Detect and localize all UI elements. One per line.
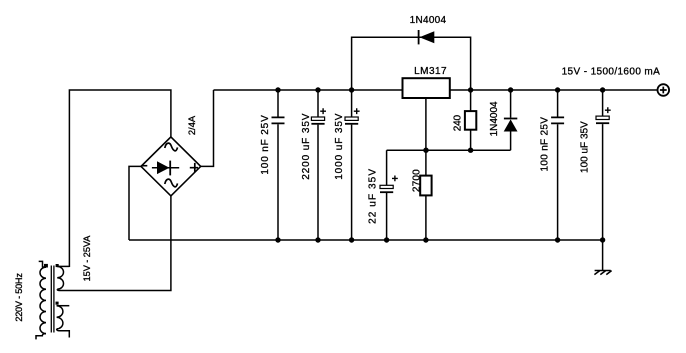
svg-text:1N4004: 1N4004	[410, 15, 447, 26]
wire: bridge + output up to main positive rail	[201, 90, 214, 166]
bridge rectifier B1 body	[141, 137, 201, 196]
node: ground rail / 2700	[423, 237, 428, 242]
wire: vertical 1N4004 branch	[510, 90, 512, 118]
capacitor 1000uF 35V	[345, 108, 360, 124]
node: rail / 2200uF	[315, 87, 320, 92]
capacitor 100uF 35V	[596, 107, 611, 123]
svg-text:15V - 25VA: 15V - 25VA	[82, 235, 92, 282]
node: adjust / 2700	[423, 148, 428, 153]
capacitor 2200uF 35V	[311, 108, 326, 124]
svg-text:LM317: LM317	[414, 66, 447, 77]
bridge rectifier internal diode	[152, 161, 179, 176]
node: rail / 100uF output	[600, 87, 605, 92]
node: adjust / 240	[468, 148, 473, 153]
svg-text:220V - 50Hz: 220V - 50Hz	[14, 273, 24, 322]
node: ground rail / 2200uF	[315, 237, 320, 242]
transformer T1 secondary winding 15V (top, used)	[57, 266, 69, 290]
wire AC: transformer secondary top to bridge top vertex	[69, 90, 170, 267]
svg-text:100 uF 35V: 100 uF 35V	[580, 121, 591, 173]
wire: 100nF output capacitor branch	[557, 90, 559, 240]
node: rail / 100nF input	[275, 87, 280, 92]
transformer T1 primary winding 220V	[36, 261, 46, 339]
wire main positive rail	[214, 89, 658, 91]
wire: 2200uF capacitor branch	[317, 90, 319, 240]
node: ground rail / 1000uF	[349, 237, 354, 242]
wire: 22uF capacitor branch	[386, 150, 388, 240]
svg-text:240: 240	[453, 115, 464, 132]
node: rail / 1000uF / protection diode	[349, 87, 354, 92]
capacitor 100nF 25V (input)	[272, 117, 285, 123]
wire: 100nF input capacitor branch	[277, 90, 279, 240]
wire bottom ground rail	[129, 239, 603, 241]
svg-text:1N4004: 1N4004	[489, 101, 500, 136]
capacitor 22uF 35V	[380, 176, 398, 193]
node: ground rail / 100uF / earth	[600, 237, 605, 242]
wire: protection diode branch (Vin side riser)	[352, 37, 471, 90]
svg-text:22 uF 35V: 22 uF 35V	[367, 168, 378, 224]
resistor 240	[465, 111, 476, 130]
wire: bridge - output down to ground rail	[129, 166, 141, 240]
transformer T1 secondary bottom phase dot	[56, 302, 59, 305]
transformer T1 core	[51, 266, 54, 333]
node: ground rail / 22uF	[384, 237, 389, 242]
transformer T1 secondary top phase dot	[56, 264, 59, 267]
node: rail / vertical 1N4004	[508, 87, 513, 92]
transformer T1 primary phase dot	[44, 264, 48, 268]
regulator LM317	[403, 78, 450, 98]
wire: 240 resistor branch	[470, 90, 472, 150]
wire: 1000uF capacitor branch	[351, 90, 353, 240]
svg-text:15V - 1500/1600 mA: 15V - 1500/1600 mA	[562, 67, 661, 78]
wire AC: bridge bottom vertex to transformer secondary bottom	[60, 196, 171, 291]
wire: vertical 1N4004 to adjust rail	[510, 132, 512, 151]
bridge rectifier AC tilde bottom	[165, 179, 178, 187]
wire: 2700 resistor branch	[425, 150, 427, 240]
transformer T1 secondary winding (bottom, unused)	[57, 306, 70, 338]
svg-text:2/4A: 2/4A	[186, 115, 197, 135]
bridge rectifier plus mark	[190, 163, 198, 172]
node: rail / 240 / protection diode	[468, 87, 473, 92]
svg-text:100 nF 25V: 100 nF 25V	[260, 114, 271, 174]
node: rail / 100nF output	[555, 87, 560, 92]
svg-text:1000 uF 35V: 1000 uF 35V	[334, 113, 345, 180]
bridge rectifier AC tilde top	[165, 143, 178, 151]
wire: ground rail to earth symbol	[602, 240, 604, 271]
wire: LM317 adjust pin	[425, 96, 427, 150]
output terminal +	[658, 84, 670, 96]
svg-text:2200 uF 35V: 2200 uF 35V	[301, 113, 312, 180]
wire adjust node rail	[387, 149, 511, 151]
capacitor 100nF 25V (output)	[551, 117, 564, 123]
diode 1N4004 (vertical)	[504, 119, 518, 132]
wire: 100uF output capacitor branch	[602, 90, 604, 240]
ground	[594, 271, 611, 275]
bridge rectifier minus mark	[142, 165, 148, 167]
diode 1N4004 protection (top)	[419, 30, 435, 44]
node: ground rail / 100nF output	[555, 237, 560, 242]
svg-text:100 nF 25V: 100 nF 25V	[540, 117, 551, 172]
svg-text:2700: 2700	[411, 169, 422, 192]
node: ground rail / 100nF input	[275, 237, 280, 242]
resistor 2700	[420, 176, 431, 196]
